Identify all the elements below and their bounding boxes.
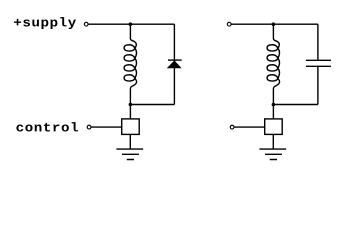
- wire control to box (left): [91, 126, 121, 128]
- wire junction to box top (right): [272, 105, 274, 119]
- node junction top left: [129, 22, 133, 26]
- terminal pin control (left): [87, 125, 91, 129]
- wire bottom right: junction to capacitor branch: [273, 104, 318, 106]
- node junction top right: [272, 22, 276, 26]
- terminal pin +supply (left): [84, 22, 88, 26]
- terminal pin supply (right): [227, 22, 231, 26]
- node +supply label: [14, 17, 76, 29]
- inductor L2 (relay coil, right): [267, 24, 280, 104]
- wire top right: terminal to capacitor branch: [232, 23, 318, 25]
- wire capacitor branch top lead: [317, 24, 319, 59]
- ground symbol (right): [259, 149, 286, 159]
- control box U1 (left driver): [122, 119, 140, 134]
- wire diode branch vertical: [173, 24, 175, 104]
- wire top left: supply terminal to diode branch: [89, 23, 175, 25]
- wire capacitor branch bottom lead: [317, 67, 319, 105]
- inductor L1 (relay coil, left): [124, 24, 137, 104]
- node junction bottom right: [272, 103, 276, 107]
- wire box bottom to ground (left): [129, 134, 131, 149]
- terminal pin control (right): [230, 125, 234, 129]
- capacitor C1 bottom plate: [306, 65, 331, 67]
- node control label: [16, 122, 78, 131]
- control box U2 (right driver): [265, 119, 283, 134]
- wire bottom left: junction to diode branch: [130, 104, 174, 106]
- ground symbol (left): [116, 149, 143, 159]
- wire box bottom to ground (right): [272, 134, 274, 149]
- diode D1 anode triangle: [168, 61, 181, 68]
- wire junction to box top (left): [129, 105, 131, 119]
- diode D1 cathode bar: [168, 59, 182, 61]
- capacitor C1 top plate: [306, 59, 331, 61]
- wire control to box (right): [234, 126, 264, 128]
- node junction bottom left: [129, 103, 133, 107]
